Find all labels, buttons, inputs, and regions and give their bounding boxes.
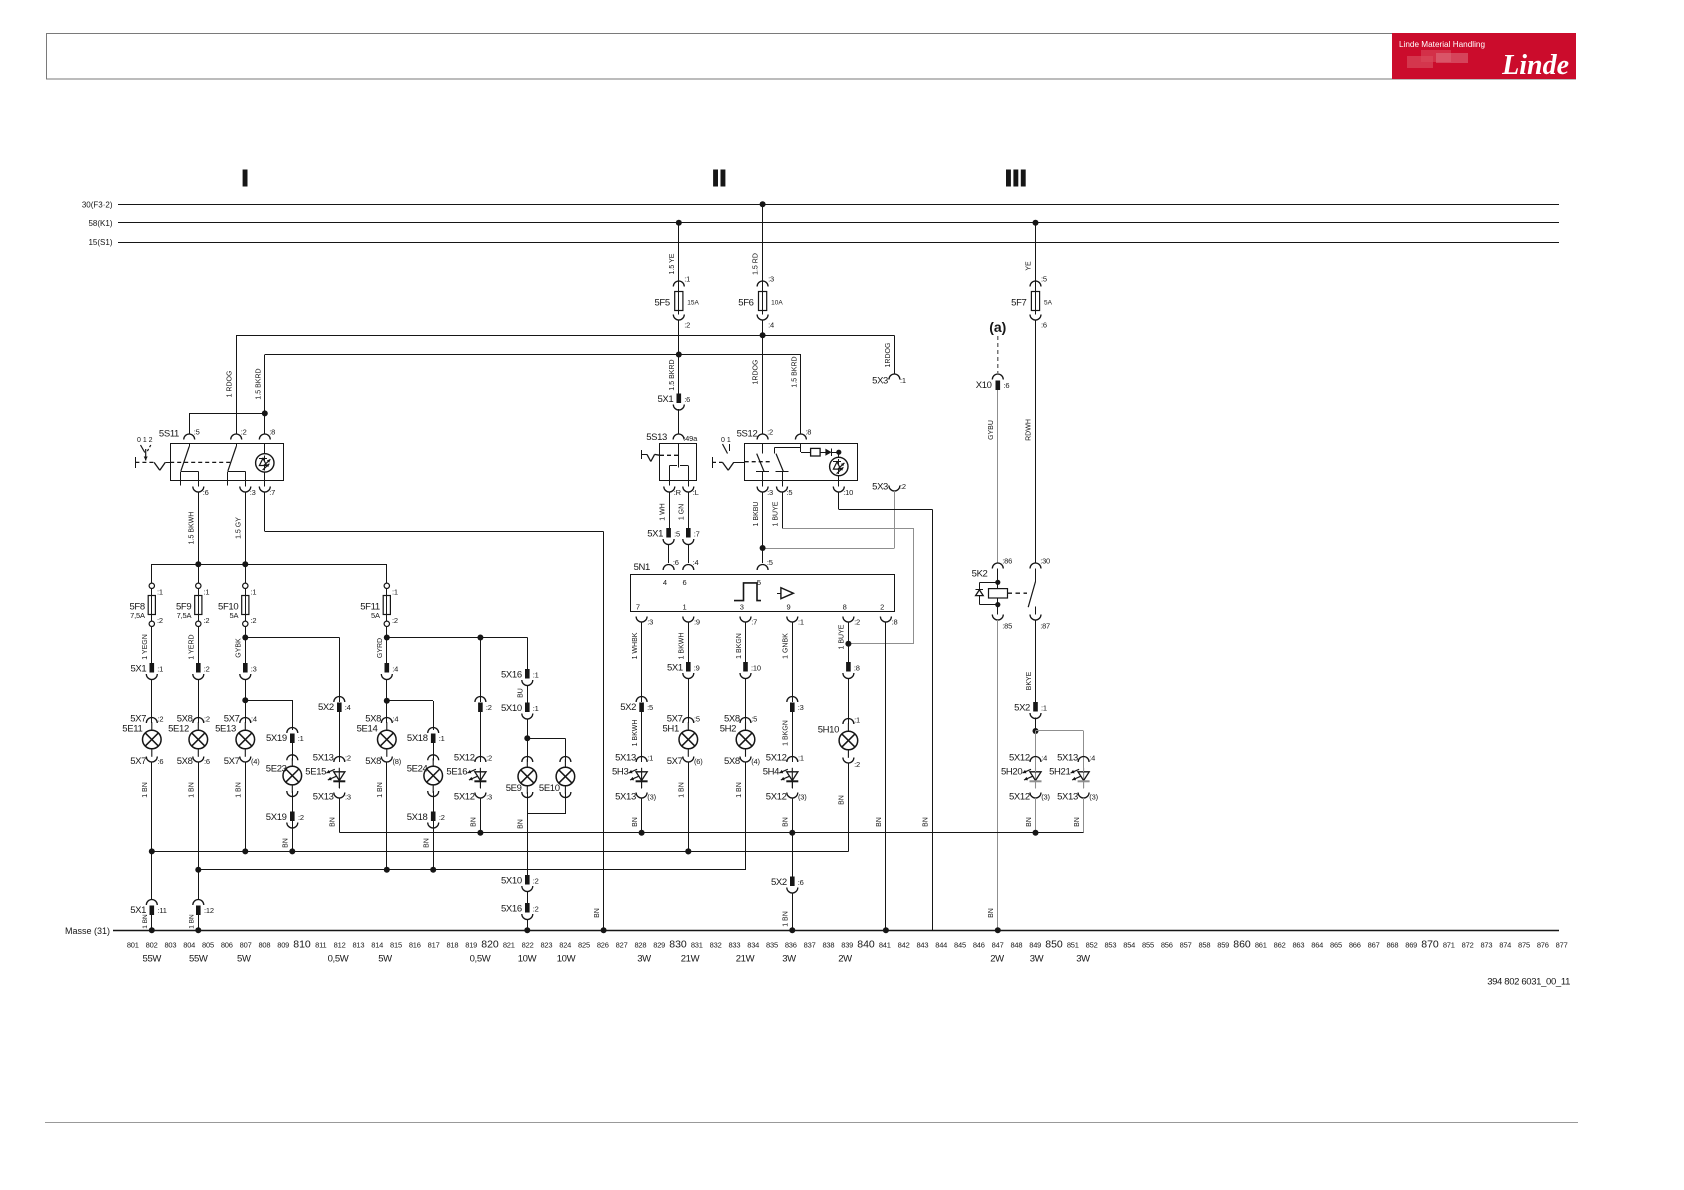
svg-text:10A: 10A [771, 300, 783, 307]
svg-text:394 802 6031_00_11: 394 802 6031_00_11 [1487, 977, 1570, 988]
wire 5X2:1 down [1035, 718, 1037, 732]
return rail BN a [152, 851, 849, 853]
wire 5X16:2 gnd [527, 919, 529, 930]
connector 5X13:4 [1078, 757, 1089, 763]
svg-text::2: :2 [439, 813, 445, 822]
wire 5X1:12 gnd [198, 915, 200, 930]
svg-text::1: :1 [157, 665, 163, 674]
wire 5X2:6 gnd [792, 893, 794, 931]
svg-text:1: 1 [683, 603, 687, 612]
svg-text:5E15: 5E15 [305, 767, 326, 778]
svg-text::5: :5 [1041, 275, 1047, 284]
wire 5X1:5 to 5N1 [668, 544, 670, 563]
svg-text::1: :1 [684, 275, 690, 284]
svg-text::3: :3 [486, 793, 492, 802]
fuse 5F5 [673, 281, 684, 287]
svg-text::1: :1 [439, 734, 445, 743]
svg-text::11: :11 [158, 906, 167, 915]
svg-text:5X10: 5X10 [501, 876, 522, 887]
svg-text:876: 876 [1537, 941, 1549, 950]
wire 5K2:87 out [1035, 620, 1037, 702]
junction 5F5 out [676, 352, 682, 358]
svg-text:5E24: 5E24 [407, 764, 428, 775]
svg-text::R: :R [674, 488, 682, 497]
svg-text:5A: 5A [1044, 300, 1053, 307]
connector 5X13:(3) [636, 793, 647, 799]
svg-text:5X12: 5X12 [454, 792, 475, 803]
led 5E16 [479, 768, 481, 788]
bus 15(S1) [118, 242, 1559, 244]
wire 5H10 down [848, 763, 850, 851]
connector 5X12:2 [475, 757, 486, 763]
connector 5X1:4 [385, 663, 390, 673]
svg-text:848: 848 [1010, 941, 1022, 950]
svg-text:850: 850 [1045, 939, 1063, 951]
svg-text:1RDOG: 1RDOG [885, 343, 892, 368]
connector 5X3:1 [889, 374, 900, 380]
connector 5H10:2 [843, 758, 854, 764]
wire 5H21 down [1083, 781, 1085, 789]
wire 5E23 to 5X19:2 [292, 791, 294, 812]
bus 58(K1) [118, 222, 1559, 224]
wire 5F7 drop [1035, 223, 1037, 287]
svg-text:828: 828 [634, 941, 646, 950]
svg-text:1.5 BKRD: 1.5 BKRD [255, 368, 262, 399]
svg-text:BN: BN [632, 817, 639, 827]
svg-text:826: 826 [597, 941, 609, 950]
wire 5E10 link top [527, 738, 565, 740]
svg-text::5: :5 [787, 488, 793, 497]
svg-text:854: 854 [1123, 941, 1135, 950]
svg-text:809: 809 [277, 941, 289, 950]
svg-text:3W: 3W [1076, 954, 1090, 965]
svg-text:875: 875 [1518, 941, 1530, 950]
wire 5E16 down [480, 781, 482, 789]
svg-text:1 BN: 1 BN [679, 782, 686, 798]
svg-text:21W: 21W [736, 954, 755, 965]
5N1 bottom pin :2 [843, 617, 854, 623]
svg-text::30: :30 [1040, 557, 1050, 566]
wire 5N1:3 out [641, 622, 643, 702]
svg-text:0,5W: 0,5W [328, 954, 349, 965]
connector 5E24 bot [428, 791, 439, 797]
svg-text:5E11: 5E11 [122, 724, 142, 735]
svg-text:1RDOG: 1RDOG [753, 360, 760, 385]
wire 5S13 R out [669, 492, 671, 528]
svg-text::5: :5 [694, 715, 700, 724]
svg-text:BKYE: BKYE [1026, 671, 1033, 690]
svg-text:5X2: 5X2 [620, 702, 636, 713]
svg-text:(4): (4) [251, 757, 260, 766]
svg-text::2: :2 [204, 665, 210, 674]
svg-text:BN: BN [283, 838, 290, 848]
svg-text::2: :2 [854, 760, 860, 769]
svg-text:870: 870 [1421, 939, 1439, 951]
wire 5N1 pin5 link [763, 548, 895, 550]
svg-text:1 BKGN: 1 BKGN [783, 720, 790, 746]
svg-text:804: 804 [183, 941, 195, 950]
svg-text:2W: 2W [990, 954, 1004, 965]
svg-text:842: 842 [898, 941, 910, 950]
svg-text:5H21: 5H21 [1049, 767, 1070, 778]
connector 5X3:2 [889, 486, 900, 492]
svg-text::10: :10 [751, 664, 761, 673]
svg-text:5X19: 5X19 [266, 733, 287, 744]
connector 5X18:1 [428, 728, 439, 733]
svg-text:5X16: 5X16 [501, 904, 522, 915]
svg-text:814: 814 [371, 941, 383, 950]
svg-text:5X8: 5X8 [177, 756, 193, 767]
5S11 pin6 [193, 487, 204, 493]
svg-text:GYBU: GYBU [988, 420, 995, 440]
wire to 5X13:2 [339, 712, 341, 762]
svg-text:1 RDOG: 1 RDOG [227, 371, 234, 398]
wire to 5X13:1 [641, 712, 643, 762]
svg-text::2: :2 [298, 813, 304, 822]
svg-text:5E14: 5E14 [357, 724, 378, 735]
svg-text:864: 864 [1311, 941, 1323, 950]
svg-text::3: :3 [251, 665, 257, 674]
svg-text:5A: 5A [371, 611, 380, 620]
svg-text:BN: BN [988, 908, 995, 918]
return rail BN b [198, 869, 745, 871]
svg-text:802: 802 [146, 941, 158, 950]
wire 5H2 down [745, 762, 747, 870]
svg-text:5X12: 5X12 [766, 792, 787, 803]
5N1 bottom pin :7 [740, 617, 751, 623]
svg-text::1: :1 [251, 588, 257, 597]
svg-text:30(F3·2): 30(F3·2) [82, 200, 113, 209]
svg-text:5H20: 5H20 [1001, 767, 1022, 778]
svg-text:5E13: 5E13 [215, 724, 236, 735]
svg-text:863: 863 [1292, 941, 1304, 950]
svg-text:5H3: 5H3 [612, 767, 628, 778]
wire 5E24 to 5X18:2 [433, 791, 435, 812]
wire 5E14 down [386, 762, 388, 870]
svg-text:7,5A: 7,5A [130, 611, 145, 620]
svg-text:5X13: 5X13 [1057, 753, 1078, 764]
svg-text:1 BKGN: 1 BKGN [736, 633, 743, 659]
svg-text:5X1: 5X1 [667, 663, 683, 674]
connector 5X19:1 [287, 728, 298, 733]
wire 5S11:7 down [264, 492, 266, 531]
5S11 pin7 [259, 487, 270, 493]
connector 5X16:1 [525, 669, 530, 679]
svg-text:5N1: 5N1 [634, 562, 650, 573]
svg-text::2: :2 [684, 321, 690, 330]
svg-text:5E23: 5E23 [266, 764, 287, 775]
wire to 5X8:5 [745, 678, 747, 723]
svg-text:15(S1): 15(S1) [88, 238, 112, 247]
wire 5E11 down [151, 762, 153, 900]
led 5H3 [641, 768, 643, 788]
svg-text:BN: BN [330, 817, 337, 827]
wire 5F5 out [678, 320, 680, 394]
svg-text:843: 843 [916, 941, 928, 950]
svg-text:1 BKWH: 1 BKWH [679, 633, 686, 660]
svg-text:5X13: 5X13 [1057, 792, 1078, 803]
svg-text:855: 855 [1142, 941, 1154, 950]
svg-text:3W: 3W [1030, 954, 1044, 965]
wire 5S11:3 down [245, 492, 247, 564]
svg-text::2: :2 [241, 428, 247, 437]
svg-text:5X8: 5X8 [724, 756, 740, 767]
svg-text:BN: BN [594, 908, 601, 918]
connector 5E10 bot [560, 792, 571, 798]
wire 5X1:7 to 5N1 [688, 544, 690, 563]
svg-text:1 GNBK: 1 GNBK [783, 633, 790, 659]
svg-text:825: 825 [578, 941, 590, 950]
wire 5K2:85 gnd [997, 620, 999, 930]
svg-text:846: 846 [973, 941, 985, 950]
wire 5F6 drop [762, 204, 764, 286]
svg-text:5X13: 5X13 [615, 792, 636, 803]
connector 5X8:5 [740, 718, 751, 724]
svg-text:5K2: 5K2 [972, 569, 988, 580]
svg-text::8: :8 [269, 428, 275, 437]
svg-text:10W: 10W [557, 954, 576, 965]
connector 5X8:6 [193, 757, 204, 763]
svg-text:5X18: 5X18 [407, 812, 428, 823]
svg-text:5X2: 5X2 [1014, 703, 1030, 714]
connector 5X7:5 [683, 718, 694, 724]
svg-text:805: 805 [202, 941, 214, 950]
svg-text:58(K1): 58(K1) [88, 219, 112, 228]
svg-text:3W: 3W [782, 954, 796, 965]
svg-text:877: 877 [1556, 941, 1568, 950]
svg-text:5F6: 5F6 [738, 298, 753, 309]
wire 5N1:1 out [792, 622, 794, 702]
svg-text:5X13: 5X13 [313, 753, 334, 764]
svg-text::8: :8 [854, 664, 860, 673]
footer rule [45, 1122, 1578, 1124]
svg-text::2: :2 [345, 754, 351, 763]
svg-text:1.5 BKRD: 1.5 BKRD [669, 359, 676, 390]
svg-text::87: :87 [1040, 622, 1050, 631]
svg-text::1: :1 [798, 754, 804, 763]
svg-text:1.5 GY: 1.5 GY [236, 517, 243, 539]
svg-text:1 BN: 1 BN [189, 914, 196, 929]
wire to 5H10 [848, 678, 850, 724]
wire to 5E24 [433, 743, 435, 760]
column marker I [243, 170, 248, 187]
wire 5H3 down [641, 781, 643, 789]
wire X10 to 5K2 [997, 390, 999, 563]
connector 5X2:2 [475, 697, 486, 703]
svg-text:871: 871 [1443, 941, 1455, 950]
svg-text:853: 853 [1104, 941, 1116, 950]
svg-text::2: :2 [533, 905, 539, 914]
wire option gray run [782, 528, 914, 530]
svg-text:819: 819 [465, 941, 477, 950]
svg-text:5X19: 5X19 [266, 812, 287, 823]
svg-text:868: 868 [1386, 941, 1398, 950]
Linde logo box [1392, 33, 1576, 79]
svg-text:860: 860 [1233, 939, 1251, 951]
svg-text:5A: 5A [230, 611, 239, 620]
lamp 5E10 [564, 759, 566, 767]
svg-text:823: 823 [540, 941, 552, 950]
wire 5E13 down [245, 762, 247, 851]
wire 5S12:5 out [782, 492, 784, 528]
5S12 pin10 [833, 487, 844, 493]
connector 5X1:7 [686, 528, 691, 538]
svg-text:1 WHBK: 1 WHBK [632, 632, 639, 659]
lamp 5H10 [847, 723, 849, 731]
lamp 5E13 [244, 722, 246, 730]
svg-text:BU: BU [518, 688, 525, 698]
wire to 5X7:4 [245, 679, 247, 723]
wire to 5X7:2 [151, 679, 153, 723]
wire 5F11 rail [387, 637, 528, 639]
svg-text:829: 829 [653, 941, 665, 950]
wire 5H20 down [1035, 781, 1037, 789]
svg-text:866: 866 [1349, 941, 1361, 950]
svg-text::7: :7 [269, 488, 275, 497]
connector 5X18:2 [431, 812, 436, 822]
svg-text::6: :6 [204, 757, 210, 766]
svg-text:1 BUYE: 1 BUYE [772, 501, 779, 526]
svg-text:1 BN: 1 BN [189, 782, 196, 798]
svg-text:(3): (3) [1089, 793, 1098, 802]
fuse feed rail [152, 564, 387, 566]
5N1 bottom pin :9 [683, 617, 694, 623]
lamp 5E23 [291, 758, 293, 766]
connector 5X1:11 [146, 900, 157, 906]
wire 5F5 drop [678, 223, 680, 287]
svg-text:RDWH: RDWH [1026, 419, 1033, 441]
svg-text::3: :3 [250, 488, 256, 497]
junction 5F6 bus [760, 201, 766, 207]
svg-text:BN: BN [424, 838, 431, 848]
connector 5X13:1 [636, 757, 647, 763]
connector 5E24 top [428, 755, 439, 761]
wire net BKRD top [265, 354, 801, 356]
svg-text:4: 4 [663, 578, 667, 587]
connector 5X1:1 [150, 663, 155, 673]
led 5E15 [338, 768, 340, 788]
svg-text:817: 817 [428, 941, 440, 950]
svg-text:862: 862 [1274, 941, 1286, 950]
svg-text:5E12: 5E12 [168, 724, 189, 735]
dashed option wire [997, 336, 999, 373]
svg-text::1: :1 [900, 376, 906, 385]
svg-text:55W: 55W [143, 954, 162, 965]
bus 30(F3-2) [118, 204, 1559, 206]
svg-text::1: :1 [798, 618, 804, 627]
connector 5X13:(3)b [1078, 793, 1089, 799]
connector 5H10:1 [843, 719, 854, 725]
5S11 pin3 [240, 487, 251, 493]
svg-text:1 BKWH: 1 BKWH [632, 720, 639, 747]
svg-text:BN: BN [1074, 817, 1081, 827]
svg-text:BN: BN [839, 795, 846, 805]
connector 5X8:2 [193, 718, 204, 724]
svg-text:5X7: 5X7 [667, 756, 683, 767]
svg-text::4: :4 [345, 703, 351, 712]
junction 5F5 bus [676, 220, 682, 226]
svg-text:5H2: 5H2 [720, 724, 736, 735]
svg-text:838: 838 [822, 941, 834, 950]
wire to 5X12:2 [480, 712, 482, 762]
wire 5F10 to 5E15 [245, 637, 339, 639]
svg-text:865: 865 [1330, 941, 1342, 950]
svg-text:1 BN: 1 BN [377, 782, 384, 798]
wire to 5X8:2 [198, 679, 200, 723]
wire 5E14 to 5E24 [387, 700, 433, 702]
svg-text:7,5A: 7,5A [177, 611, 192, 620]
connector 5X10:2 [525, 875, 530, 885]
lamp 5E12 [197, 722, 199, 730]
svg-text:872: 872 [1462, 941, 1474, 950]
connector 5X13:3 [334, 793, 345, 799]
svg-text:867: 867 [1368, 941, 1380, 950]
svg-text:5X7: 5X7 [224, 756, 240, 767]
wire 5N1:2 out [848, 622, 850, 662]
wire 5E16 feed [480, 638, 482, 703]
connector 5X1:9 [686, 662, 691, 672]
5S12 pin5 [777, 487, 788, 493]
fuse 5F7 [1030, 281, 1041, 287]
svg-text:806: 806 [221, 941, 233, 950]
svg-text:21W: 21W [681, 954, 700, 965]
connector 5X1:12 [193, 900, 204, 906]
wire 5S13 L out [688, 492, 690, 528]
svg-text::6: :6 [1041, 321, 1047, 330]
fuse 5F6 [757, 281, 768, 287]
connector 5X1:6 [677, 394, 682, 404]
svg-text::2: :2 [204, 715, 210, 724]
column marker III [1006, 170, 1011, 187]
wire 5X1:6 to 5S13 [678, 409, 680, 434]
wire 5E10 link bot [565, 792, 567, 814]
column marker II [713, 170, 718, 187]
wire 5X18:2 down [433, 821, 435, 870]
svg-text:813: 813 [352, 941, 364, 950]
svg-text:831: 831 [691, 941, 703, 950]
svg-text::4: :4 [1089, 754, 1095, 763]
connector 5E9 top [522, 757, 533, 763]
connector 5E9 bot [522, 792, 533, 798]
svg-text:(8): (8) [393, 757, 402, 766]
svg-text::3: :3 [647, 618, 653, 627]
svg-text::2: :2 [392, 616, 398, 625]
svg-text:6: 6 [683, 578, 687, 587]
lamp 5E9 [526, 759, 528, 767]
svg-text:1 BN: 1 BN [783, 911, 790, 927]
svg-text:820: 820 [481, 939, 499, 951]
svg-text:801: 801 [127, 941, 139, 950]
svg-text:1.5 YE: 1.5 YE [669, 253, 676, 274]
svg-text:0 1: 0 1 [721, 437, 731, 444]
svg-text:5X16: 5X16 [501, 670, 522, 681]
svg-text::1: :1 [533, 671, 539, 680]
header frame [47, 34, 1576, 80]
wire 5F10 out [245, 627, 247, 664]
svg-text:3: 3 [740, 603, 744, 612]
svg-text:858: 858 [1198, 941, 1210, 950]
wire 5E9 feed [527, 638, 529, 670]
svg-text:BN: BN [471, 817, 478, 827]
lamp 5E11 [151, 722, 153, 730]
svg-text:5W: 5W [378, 954, 392, 965]
svg-text::1: :1 [392, 588, 398, 597]
svg-text:857: 857 [1180, 941, 1192, 950]
svg-text::4: :4 [768, 321, 774, 330]
svg-text::12: :12 [204, 906, 214, 915]
wire 5E13 to 5E23 [245, 700, 292, 702]
svg-text::4: :4 [1041, 754, 1047, 763]
